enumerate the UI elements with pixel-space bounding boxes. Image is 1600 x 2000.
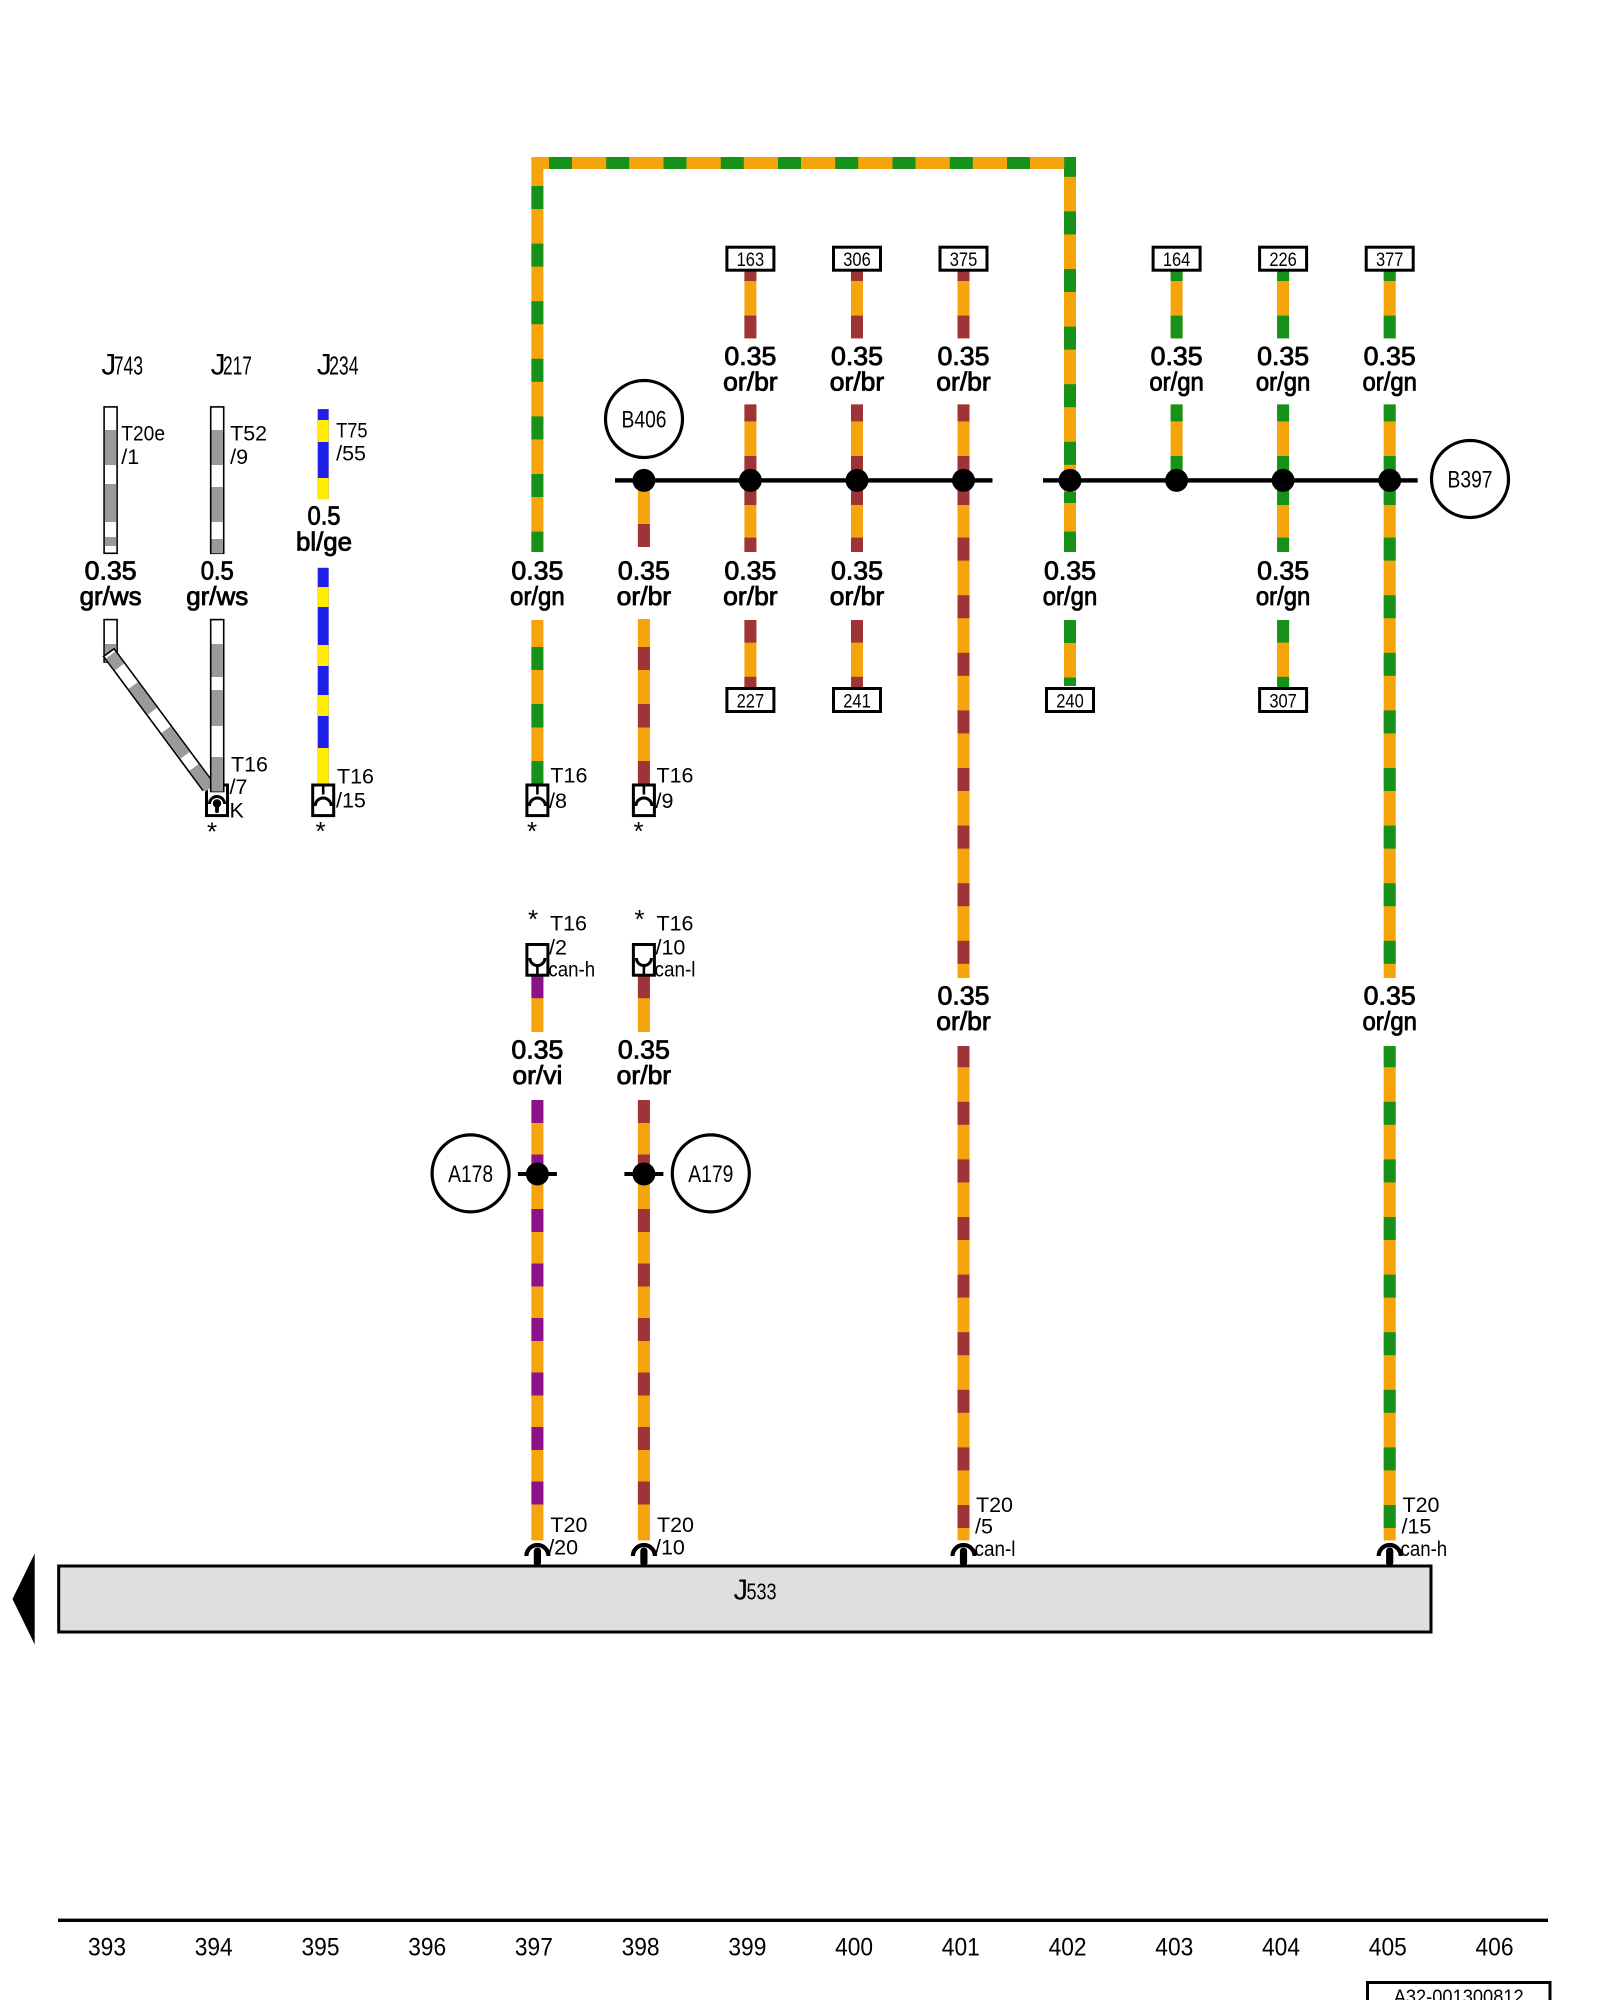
svg-text:or/br: or/br [830,366,885,396]
svg-text:*: * [207,817,217,847]
svg-text:399: 399 [728,1934,766,1962]
svg-text:can-l: can-l [655,958,696,982]
svg-text:395: 395 [302,1934,340,1962]
svg-text:T16: T16 [231,753,268,777]
svg-text:*: * [634,816,644,846]
svg-text:394: 394 [195,1934,233,1962]
svg-text:240: 240 [1056,690,1084,712]
svg-text:375: 375 [950,249,978,271]
svg-text:393: 393 [88,1934,126,1962]
svg-text:bl/ge: bl/ge [296,526,352,556]
svg-text:or/gn: or/gn [1149,366,1204,396]
svg-text:T16: T16 [657,912,694,936]
svg-text:can-h: can-h [1401,1537,1448,1561]
svg-text:or/br: or/br [830,581,885,611]
svg-text:or/br: or/br [936,366,991,396]
svg-text:or/gn: or/gn [1256,366,1311,396]
svg-text:163: 163 [737,249,765,271]
svg-text:A32-001300812: A32-001300812 [1394,1987,1524,2000]
svg-text:*: * [528,904,538,934]
svg-text:/9: /9 [230,445,248,469]
svg-text:306: 306 [843,249,871,271]
svg-text:/9: /9 [656,789,674,813]
svg-text:396: 396 [408,1934,446,1962]
svg-text:or/br: or/br [723,366,778,396]
svg-text:400: 400 [835,1934,873,1962]
svg-text:T16: T16 [550,912,587,936]
svg-text:A178: A178 [448,1161,493,1188]
svg-text:K: K [230,799,245,823]
svg-text:307: 307 [1269,690,1297,712]
svg-text:B406: B406 [622,407,667,434]
svg-text:743: 743 [114,350,143,380]
svg-text:241: 241 [843,690,871,712]
svg-text:402: 402 [1049,1934,1087,1962]
svg-text:T20e: T20e [121,422,165,446]
svg-text:T20: T20 [1403,1493,1440,1517]
svg-text:/10: /10 [655,1536,685,1560]
svg-text:404: 404 [1262,1934,1300,1962]
svg-text:405: 405 [1369,1934,1407,1962]
svg-text:398: 398 [622,1934,660,1962]
svg-text:can-l: can-l [975,1537,1016,1561]
svg-text:/5: /5 [975,1515,993,1539]
svg-text:T16: T16 [337,765,374,789]
svg-text:gr/ws: gr/ws [80,581,142,611]
svg-text:/1: /1 [121,445,139,469]
svg-text:or/gn: or/gn [1043,581,1098,611]
svg-text:gr/ws: gr/ws [186,581,248,611]
svg-text:A179: A179 [688,1161,733,1188]
svg-text:234: 234 [329,350,358,380]
svg-text:T75: T75 [336,419,368,443]
svg-text:/2: /2 [549,935,567,959]
svg-text:533: 533 [747,1579,777,1605]
svg-text:or/br: or/br [723,581,778,611]
svg-text:*: * [527,816,537,846]
svg-text:can-h: can-h [548,958,595,982]
svg-text:T16: T16 [550,764,587,788]
svg-text:T20: T20 [976,1493,1013,1517]
svg-text:B397: B397 [1448,467,1493,494]
svg-text:164: 164 [1163,249,1191,271]
svg-text:T20: T20 [550,1513,587,1537]
svg-text:377: 377 [1376,249,1404,271]
svg-text:T16: T16 [657,764,694,788]
svg-text:/15: /15 [1402,1515,1432,1539]
svg-text:/10: /10 [656,935,686,959]
svg-text:or/gn: or/gn [1256,581,1311,611]
svg-text:406: 406 [1476,1934,1514,1962]
svg-text:/15: /15 [336,789,366,813]
svg-text:or/br: or/br [617,581,672,611]
svg-text:*: * [316,816,326,846]
svg-text:/20: /20 [548,1536,578,1560]
svg-text:397: 397 [515,1934,553,1962]
svg-text:217: 217 [223,350,252,380]
svg-text:or/gn: or/gn [1362,1006,1417,1036]
svg-text:T20: T20 [657,1513,694,1537]
svg-text:T52: T52 [230,422,267,446]
svg-text:/55: /55 [336,441,366,465]
svg-text:or/br: or/br [617,1060,672,1090]
svg-text:/7: /7 [230,775,248,799]
svg-text:403: 403 [1155,1934,1193,1962]
svg-text:*: * [635,904,645,934]
svg-text:/8: /8 [549,789,567,813]
svg-text:or/gn: or/gn [510,581,565,611]
svg-text:or/br: or/br [936,1006,991,1036]
svg-text:or/gn: or/gn [1362,366,1417,396]
svg-text:401: 401 [942,1934,980,1962]
svg-text:226: 226 [1269,249,1297,271]
svg-text:227: 227 [737,690,765,712]
svg-text:or/vi: or/vi [512,1060,562,1090]
